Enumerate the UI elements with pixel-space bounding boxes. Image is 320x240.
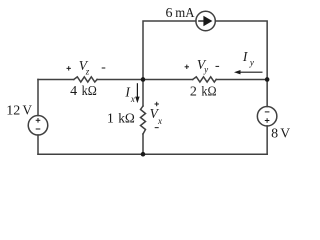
current source arrow: [198, 16, 212, 26]
svg-text:z: z: [85, 67, 90, 77]
8V source + sign: [265, 118, 270, 123]
wire: top right segment down right column to node B: [215, 21, 267, 106]
svg-text:8: 8: [271, 126, 278, 141]
svg-text:y: y: [249, 58, 254, 68]
node A junction dot: [141, 77, 146, 82]
voltage source 8 V: [257, 106, 277, 126]
12V source - sign: [36, 128, 41, 130]
svg-text:6: 6: [166, 6, 173, 21]
svg-text:V: V: [23, 104, 33, 119]
wire: middle right lead: [216, 78, 267, 80]
polarity - for Vx: [155, 127, 159, 129]
wire: middle column below 1k resistor: [142, 134, 144, 154]
svg-text:4: 4: [70, 84, 77, 99]
12V source + sign: [36, 118, 41, 123]
wire: left column upper: [37, 79, 39, 115]
svg-text:12: 12: [6, 104, 20, 119]
wire: middle left lead: [38, 78, 74, 80]
wire: middle column node A to 1k resistor: [142, 79, 144, 106]
arrow Ix (pointing down): [135, 83, 139, 103]
svg-text:kΩ: kΩ: [82, 84, 97, 99]
svg-text:x: x: [130, 94, 135, 104]
polarity - for Vy: [216, 65, 220, 67]
node C junction dot (bottom): [141, 152, 146, 157]
current source 6 mA: [196, 11, 215, 30]
wire: left column lower: [37, 135, 39, 154]
polarity + for Vx: [155, 102, 159, 106]
resistor R1 4 kOhm: [74, 77, 97, 82]
8V source - sign: [265, 111, 270, 113]
svg-text:x: x: [157, 116, 162, 126]
voltage source 12 V: [28, 116, 48, 136]
polarity - for Vz: [102, 67, 106, 69]
svg-text:I: I: [242, 49, 249, 64]
wire: middle center segment: [97, 78, 193, 80]
polarity + for Vz: [67, 66, 71, 70]
svg-text:V: V: [280, 126, 290, 141]
svg-text:mA: mA: [175, 6, 195, 21]
wire: bottom rail: [38, 153, 267, 155]
svg-text:2: 2: [190, 85, 197, 100]
node B junction dot (right): [265, 77, 270, 82]
arrow Iy (pointing left): [234, 70, 263, 74]
svg-text:kΩ: kΩ: [201, 85, 216, 100]
svg-text:y: y: [203, 65, 208, 75]
wire: right column below 8V source: [266, 126, 268, 154]
svg-text:kΩ: kΩ: [118, 112, 135, 127]
resistor R2 2 kOhm: [193, 77, 217, 82]
polarity + for Vy: [185, 65, 189, 69]
resistor R3 1 kOhm: [141, 106, 146, 134]
wire: riser from node A up and across to current source: [143, 21, 196, 79]
svg-text:1: 1: [107, 112, 114, 127]
